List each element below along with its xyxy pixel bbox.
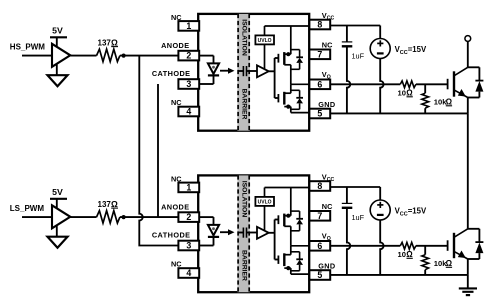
svg-text:LS_PWM: LS_PWM [10,204,45,213]
svg-text:HS_PWM: HS_PWM [10,42,45,51]
